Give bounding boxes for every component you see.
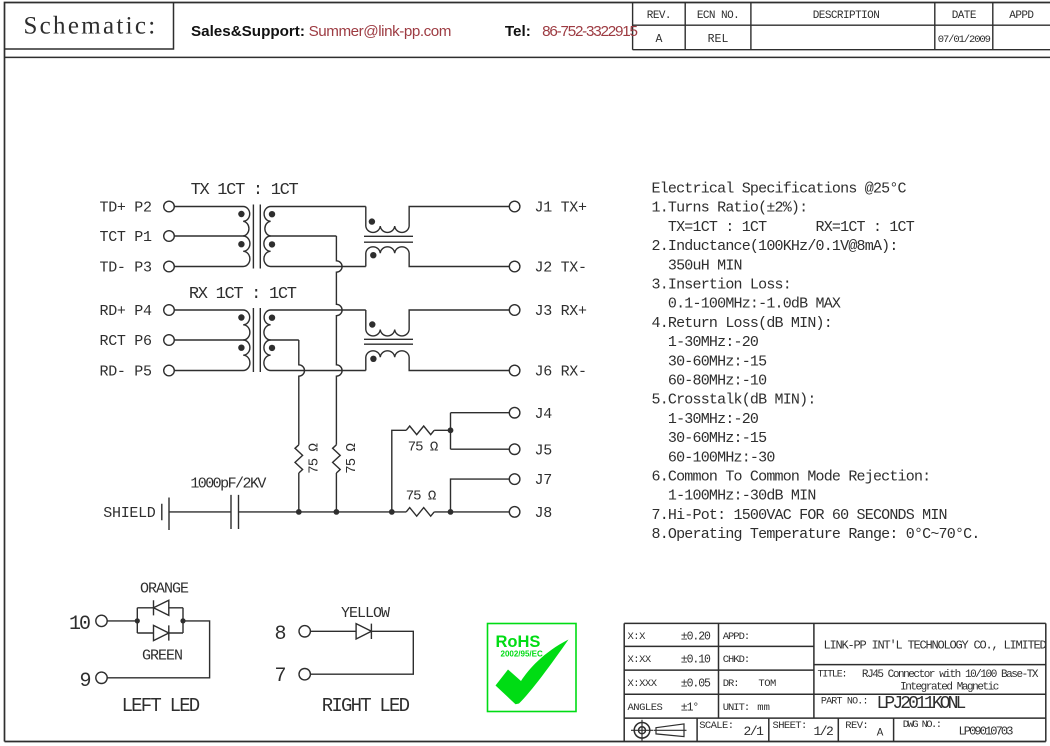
svg-text:TITLE:: TITLE: (818, 670, 847, 681)
choke L2 RX bottom winding (366, 351, 510, 371)
svg-text:07/01/2009: 07/01/2009 (938, 34, 991, 46)
label J2 TX- (535, 260, 587, 277)
transformer T2 core (253, 308, 260, 372)
wire R3 to J4 J5 junction (434, 413, 509, 450)
scale cell (699, 720, 764, 739)
svg-text:A: A (655, 33, 662, 46)
title block frame (624, 623, 1046, 741)
wire shield to capacitor (169, 511, 231, 513)
svg-text:60-80MHz:-10: 60-80MHz:-10 (652, 373, 768, 390)
electrical specifications text block (652, 181, 980, 544)
svg-text:30-60MHz:-15: 30-60MHz:-15 (652, 430, 768, 447)
diode D1 orange LED pointing left (154, 600, 169, 615)
wire RX center tap vertical with crossover hop (299, 340, 305, 445)
svg-text:APPD: APPD (1009, 10, 1034, 22)
node P1 terminal (164, 231, 175, 242)
resistor R4 75ohm horizontal on bus (406, 508, 434, 517)
tolerance text ANGLES (628, 702, 699, 715)
wire LED pair box (137, 608, 183, 633)
svg-text:9: 9 (80, 670, 91, 693)
svg-text:CHKD:: CHKD: (723, 654, 750, 666)
wire ground bus (239, 511, 510, 513)
resistor R1 75ohm vertical (295, 445, 303, 473)
label J7 (535, 472, 552, 489)
svg-text:ANGLES: ANGLES (628, 702, 663, 714)
svg-text:GREEN: GREEN (142, 648, 182, 665)
revision table (633, 3, 1050, 50)
tolerance text X:X (628, 631, 712, 644)
svg-text:75 Ω: 75 Ω (306, 444, 322, 474)
company name (823, 639, 1046, 653)
svg-text:TD- P3: TD- P3 (100, 260, 153, 277)
svg-text:±0.10: ±0.10 (681, 654, 711, 667)
svg-text:REL: REL (708, 33, 729, 46)
wire yellow LED to pin 7 (310, 631, 413, 674)
node J1 terminal (509, 201, 520, 212)
label LEFT LED (122, 695, 200, 717)
diode D2 green LED pointing right (154, 625, 169, 640)
node P2 terminal (164, 201, 175, 212)
svg-text:J2 TX-: J2 TX- (535, 260, 587, 277)
wire pin8 to yellow LED (310, 630, 356, 632)
header contact text (191, 23, 638, 40)
svg-text:SHEET:: SHEET: (773, 720, 807, 732)
label pin 9 (80, 670, 91, 693)
svg-text:1.Turns Ratio(±2%):: 1.Turns Ratio(±2%): (652, 200, 808, 217)
svg-text:2/1: 2/1 (744, 724, 765, 739)
svg-text:REV:: REV: (845, 720, 868, 732)
label J8 (535, 505, 553, 522)
svg-text:RX 1CT : 1CT: RX 1CT : 1CT (189, 285, 297, 304)
value R4 75ohm (406, 489, 436, 505)
value R3 75ohm (408, 440, 438, 456)
svg-text:75 Ω: 75 Ω (408, 440, 438, 456)
dwg no cell (903, 719, 1013, 739)
svg-text:7.Hi-Pot: 1500VAC FOR 60 SECON: 7.Hi-Pot: 1500VAC FOR 60 SECONDS MIN (652, 507, 947, 524)
transformer T1 core (253, 205, 260, 269)
label J5 (535, 442, 553, 459)
svg-text:UNIT:: UNIT: (723, 702, 750, 714)
svg-text:DESCRIPTION: DESCRIPTION (813, 10, 880, 22)
wire LED pair to pin 9 (107, 621, 209, 678)
svg-text:5.Crosstalk(dB MIN):: 5.Crosstalk(dB MIN): (652, 392, 816, 409)
svg-text:RD- P5: RD- P5 (100, 364, 153, 381)
phase dot T2 primary top (238, 314, 244, 320)
wire R1 to bus (298, 473, 300, 512)
label J3 RX+ (535, 303, 588, 320)
header underline (5, 56, 1050, 58)
transformer T2 RX secondary winding (264, 310, 366, 371)
label pin 8 (275, 623, 286, 646)
svg-text:1-30MHz:-20: 1-30MHz:-20 (652, 411, 759, 428)
svg-text:2.Inductance(100KHz/0.1V@8mA):: 2.Inductance(100KHz/0.1V@8mA): (652, 238, 898, 255)
svg-text:Summer@link-pp.com: Summer@link-pp.com (309, 23, 451, 40)
svg-text:TCT P1: TCT P1 (100, 229, 153, 246)
part no label (821, 697, 868, 708)
label Schematic: (23, 13, 157, 40)
svg-text:350uH MIN: 350uH MIN (652, 257, 742, 274)
svg-text:0.1-100MHz:-1.0dB MAX: 0.1-100MHz:-1.0dB MAX (652, 296, 841, 313)
label GREEN (142, 648, 182, 665)
svg-text:TX=1CT : 1CT RX=1CT : 1CT: TX=1CT : 1CT RX=1CT : 1CT (652, 219, 915, 236)
svg-text:X:X: X:X (628, 631, 647, 643)
tolerance text X:XXX (628, 678, 712, 691)
resistor R3 75ohm horizontal (406, 426, 434, 435)
svg-text:1-100MHz:-30dB MIN: 1-100MHz:-30dB MIN (652, 488, 816, 505)
wire R2 to bus (335, 473, 337, 512)
junction dot bus R1 (296, 509, 302, 515)
svg-text:REV.: REV. (647, 10, 671, 22)
node J6 terminal (509, 365, 520, 376)
node J5 terminal (509, 444, 520, 455)
svg-text:1000pF/2KV: 1000pF/2KV (190, 476, 266, 493)
wire bus branch up to R3 (392, 430, 406, 512)
svg-text:X:XX: X:XX (628, 654, 652, 666)
svg-text:Electrical Specifications @25°: Electrical Specifications @25°C (652, 181, 907, 198)
value R1 75ohm (306, 444, 322, 474)
label RD+ P4 (100, 303, 153, 320)
node J3 terminal (509, 305, 520, 316)
junction dot LED pair left (135, 618, 140, 623)
svg-text:60-100MHz:-30: 60-100MHz:-30 (652, 449, 776, 466)
svg-text:J5: J5 (535, 442, 553, 459)
title text line 2 (900, 682, 999, 694)
label TCT P1 (100, 229, 153, 246)
svg-text:J8: J8 (535, 505, 553, 522)
label J6 RX- (535, 364, 587, 381)
svg-text:±0.20: ±0.20 (681, 631, 711, 644)
rev cell (845, 720, 883, 740)
label RIGHT LED (322, 695, 410, 717)
choke L1 TX bottom winding (366, 247, 510, 267)
capacitor C1 1000pF/2KV (231, 495, 239, 529)
svg-text:7: 7 (275, 665, 286, 688)
label RD- P5 (100, 364, 153, 381)
resistor R2 75ohm vertical (333, 445, 341, 473)
svg-text:1/2: 1/2 (813, 724, 833, 739)
choke L2 RX top winding (366, 310, 510, 336)
svg-text:75 Ω: 75 Ω (406, 489, 436, 505)
phase dot T2 secondary top (269, 315, 275, 321)
phase dot T1 primary top (238, 211, 244, 217)
node pin 7 terminal (299, 669, 310, 680)
phase dot T1 primary bottom (238, 241, 244, 247)
junction dot bus branch (389, 509, 395, 515)
svg-text:Integrated Magnetic: Integrated Magnetic (900, 682, 999, 694)
choke L1 TX top winding (366, 207, 510, 233)
label SHIELD (103, 505, 156, 522)
svg-text:3.Insertion Loss:: 3.Insertion Loss: (652, 277, 791, 294)
svg-text:TOM: TOM (758, 678, 776, 690)
revision table header text (647, 10, 1035, 22)
svg-text:8.Operating Temperature Range:: 8.Operating Temperature Range: 0°C~70°C. (652, 526, 980, 543)
wire TX center tap vertical with crossover hops (336, 236, 342, 445)
svg-text:SHIELD: SHIELD (103, 505, 156, 522)
sheet cell (773, 720, 834, 739)
transformer T2 RX primary winding (175, 310, 250, 371)
title block row lines (624, 646, 1046, 718)
node J8 terminal (509, 507, 520, 518)
svg-text:RoHS: RoHS (496, 633, 541, 651)
svg-text:4.Return Loss(dB MIN):: 4.Return Loss(dB MIN): (652, 315, 832, 332)
svg-text:2002/95/EC: 2002/95/EC (501, 650, 543, 659)
label pin 7 (275, 665, 286, 688)
junction dot J4 J5 (448, 427, 454, 433)
phase dot T2 secondary bottom (269, 345, 275, 351)
label TX ratio (191, 181, 299, 200)
svg-text:RCT P6: RCT P6 (100, 333, 153, 350)
node P3 terminal (164, 261, 175, 272)
node P5 terminal (164, 365, 175, 376)
label YELLOW (341, 605, 390, 622)
svg-text:PART NO.:: PART NO.: (821, 697, 868, 708)
svg-text:A: A (877, 728, 884, 740)
svg-text:10: 10 (69, 613, 90, 636)
svg-text:YELLOW: YELLOW (341, 605, 390, 622)
choke L2 core (364, 339, 413, 344)
svg-text:J7: J7 (535, 472, 552, 489)
svg-text:ECN NO.: ECN NO. (697, 10, 739, 22)
svg-text:75 Ω: 75 Ω (344, 444, 360, 474)
svg-text:J3 RX+: J3 RX+ (535, 303, 588, 320)
projection symbol (631, 720, 687, 741)
svg-text:8: 8 (275, 623, 286, 646)
title label (818, 670, 847, 681)
title block column lines (697, 623, 894, 741)
svg-text:±1°: ±1° (681, 702, 699, 715)
svg-text:LP09010703: LP09010703 (958, 725, 1013, 739)
value R2 75ohm (344, 444, 360, 474)
tolerance text X:XX (628, 654, 712, 667)
label TD- P3 (100, 260, 153, 277)
phase dot L1 bottom (370, 252, 376, 258)
RoHS logo checkmark (496, 640, 569, 705)
phase dot T1 secondary top (269, 211, 275, 217)
svg-text:6.Common To Common Mode Reject: 6.Common To Common Mode Rejection: (652, 469, 931, 486)
svg-text:SCALE:: SCALE: (699, 720, 733, 732)
svg-text:30-60MHz:-15: 30-60MHz:-15 (652, 353, 768, 370)
svg-text:X:XXX: X:XXX (628, 678, 658, 690)
label RX ratio (189, 285, 297, 304)
svg-text:ORANGE: ORANGE (140, 581, 189, 598)
RoHS logo text (496, 633, 543, 659)
part number LPJ2011KONL (877, 694, 966, 714)
label TD+ P2 (100, 200, 152, 217)
approval labels (723, 631, 776, 714)
transformer T1 TX primary winding (175, 207, 250, 267)
node pin 10 terminal (96, 615, 107, 626)
phase dot L1 top (369, 218, 375, 224)
svg-text:86-752-3322915: 86-752-3322915 (542, 23, 637, 40)
svg-text:Tel:: Tel: (505, 23, 531, 40)
svg-text:J4: J4 (535, 406, 553, 423)
svg-text:RD+ P4: RD+ P4 (100, 303, 153, 320)
choke L1 core (364, 236, 413, 242)
label J1 TX+ (535, 200, 588, 217)
svg-text:APPD:: APPD: (723, 631, 750, 643)
svg-text:LPJ2011KONL: LPJ2011KONL (877, 694, 966, 714)
svg-text:mm: mm (757, 702, 770, 714)
junction dot LED pair right (180, 618, 185, 623)
label RCT P6 (100, 333, 153, 350)
wire J7 branch (451, 479, 510, 512)
svg-text:±0.05: ±0.05 (681, 678, 711, 691)
svg-text:TX 1CT : 1CT: TX 1CT : 1CT (191, 181, 299, 200)
node J4 terminal (509, 407, 520, 418)
label pin 10 (69, 613, 90, 636)
shield symbol (162, 498, 169, 531)
node pin 9 terminal (96, 672, 107, 683)
node P6 terminal (164, 335, 175, 346)
svg-text:LINK-PP INT'L TECHNOLOGY CO.,: LINK-PP INT'L TECHNOLOGY CO., LIMITED (823, 639, 1046, 653)
phase dot T2 primary bottom (238, 345, 244, 351)
node P4 terminal (164, 305, 175, 316)
value 1000pF/2KV (190, 476, 266, 493)
svg-text:RIGHT LED: RIGHT LED (322, 695, 410, 717)
label ORANGE (140, 581, 189, 598)
junction dot bus R2 (334, 509, 340, 515)
svg-text:TD+ P2: TD+ P2 (100, 200, 152, 217)
title box Schematic (5, 3, 174, 50)
node J2 terminal (509, 261, 520, 272)
svg-text:DR:: DR: (723, 678, 739, 690)
RoHS logo box (488, 624, 577, 712)
phase dot L2 bottom (370, 356, 376, 362)
node J7 terminal (509, 474, 520, 485)
svg-text:J6 RX-: J6 RX- (535, 364, 587, 381)
node pin 8 terminal (299, 626, 310, 637)
svg-text:LEFT LED: LEFT LED (122, 695, 200, 717)
wire pin10 to LED pair (107, 620, 137, 622)
diode D3 yellow LED pointing right (356, 624, 371, 639)
svg-text:1-30MHz:-20: 1-30MHz:-20 (652, 334, 759, 351)
revision row A REL 07/01/2009 (655, 33, 990, 46)
svg-text:J1 TX+: J1 TX+ (535, 200, 588, 217)
title text line 1 (862, 669, 1039, 681)
transformer T1 TX secondary winding (264, 207, 366, 267)
svg-text:RJ45 Connector with 10/100 Bas: RJ45 Connector with 10/100 Base-TX (862, 669, 1039, 681)
svg-text:DATE: DATE (952, 10, 977, 22)
label J4 (535, 406, 553, 423)
svg-text:Sales&Support:: Sales&Support: (191, 23, 305, 40)
svg-text:DWG NO.:: DWG NO.: (903, 719, 941, 731)
phase dot T1 secondary bottom (269, 241, 275, 247)
phase dot L2 top (369, 321, 375, 327)
junction dot J7 branch (448, 509, 454, 515)
svg-text:Schematic:: Schematic: (23, 13, 157, 40)
